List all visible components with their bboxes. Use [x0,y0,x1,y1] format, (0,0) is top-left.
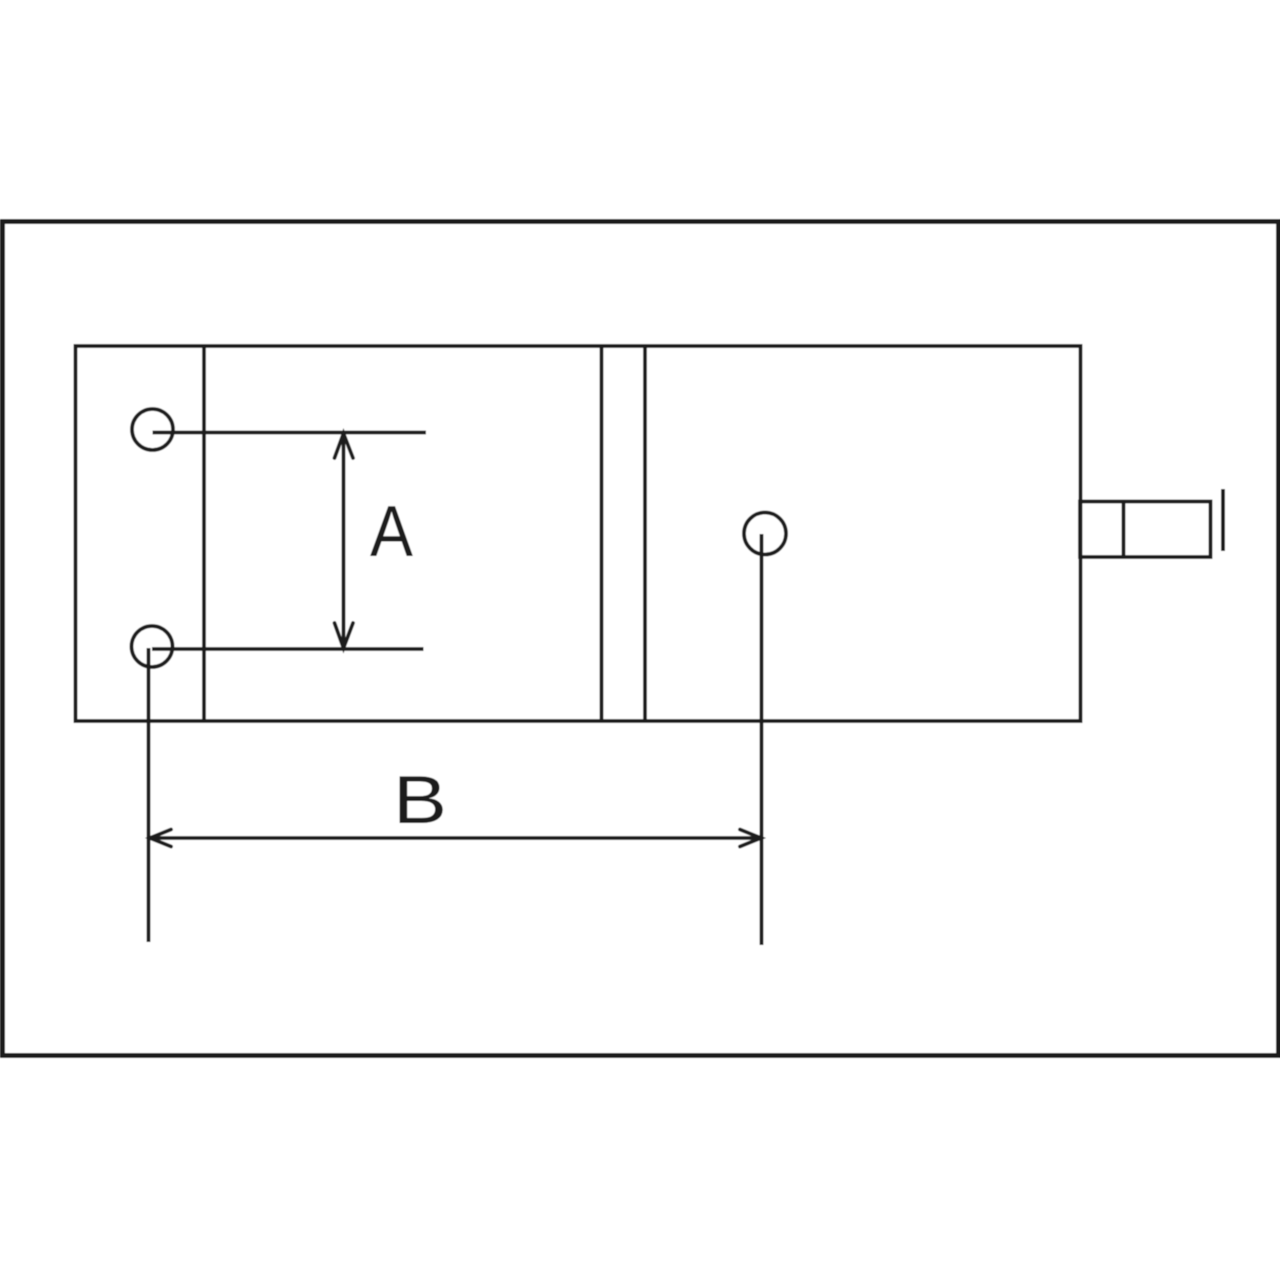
arrowhead B left [150,830,171,847]
extension line from bottom hole [152,647,424,651]
hole top-left [132,409,173,450]
extension line from top hole [153,431,427,435]
hole right [744,513,786,555]
section double line left [600,346,604,721]
section double line right [643,346,647,721]
arrowhead A top [335,434,354,459]
arrowhead A bottom [335,623,354,648]
dimension line A [342,433,346,649]
flange separator line [202,346,206,721]
body outline [76,346,1081,721]
dimension line B [150,836,762,840]
extension line down from bottom-left hole [147,648,151,942]
shaft boss [1080,502,1211,558]
extension line down from right hole [760,534,764,945]
svg-text:A: A [370,492,413,572]
arrowhead B right [740,830,761,847]
shaft end tick [1221,489,1225,551]
svg-text:B: B [393,762,447,838]
outer frame [3,222,1279,1056]
shaft step line [1122,502,1126,558]
hole bottom-left [132,626,173,667]
